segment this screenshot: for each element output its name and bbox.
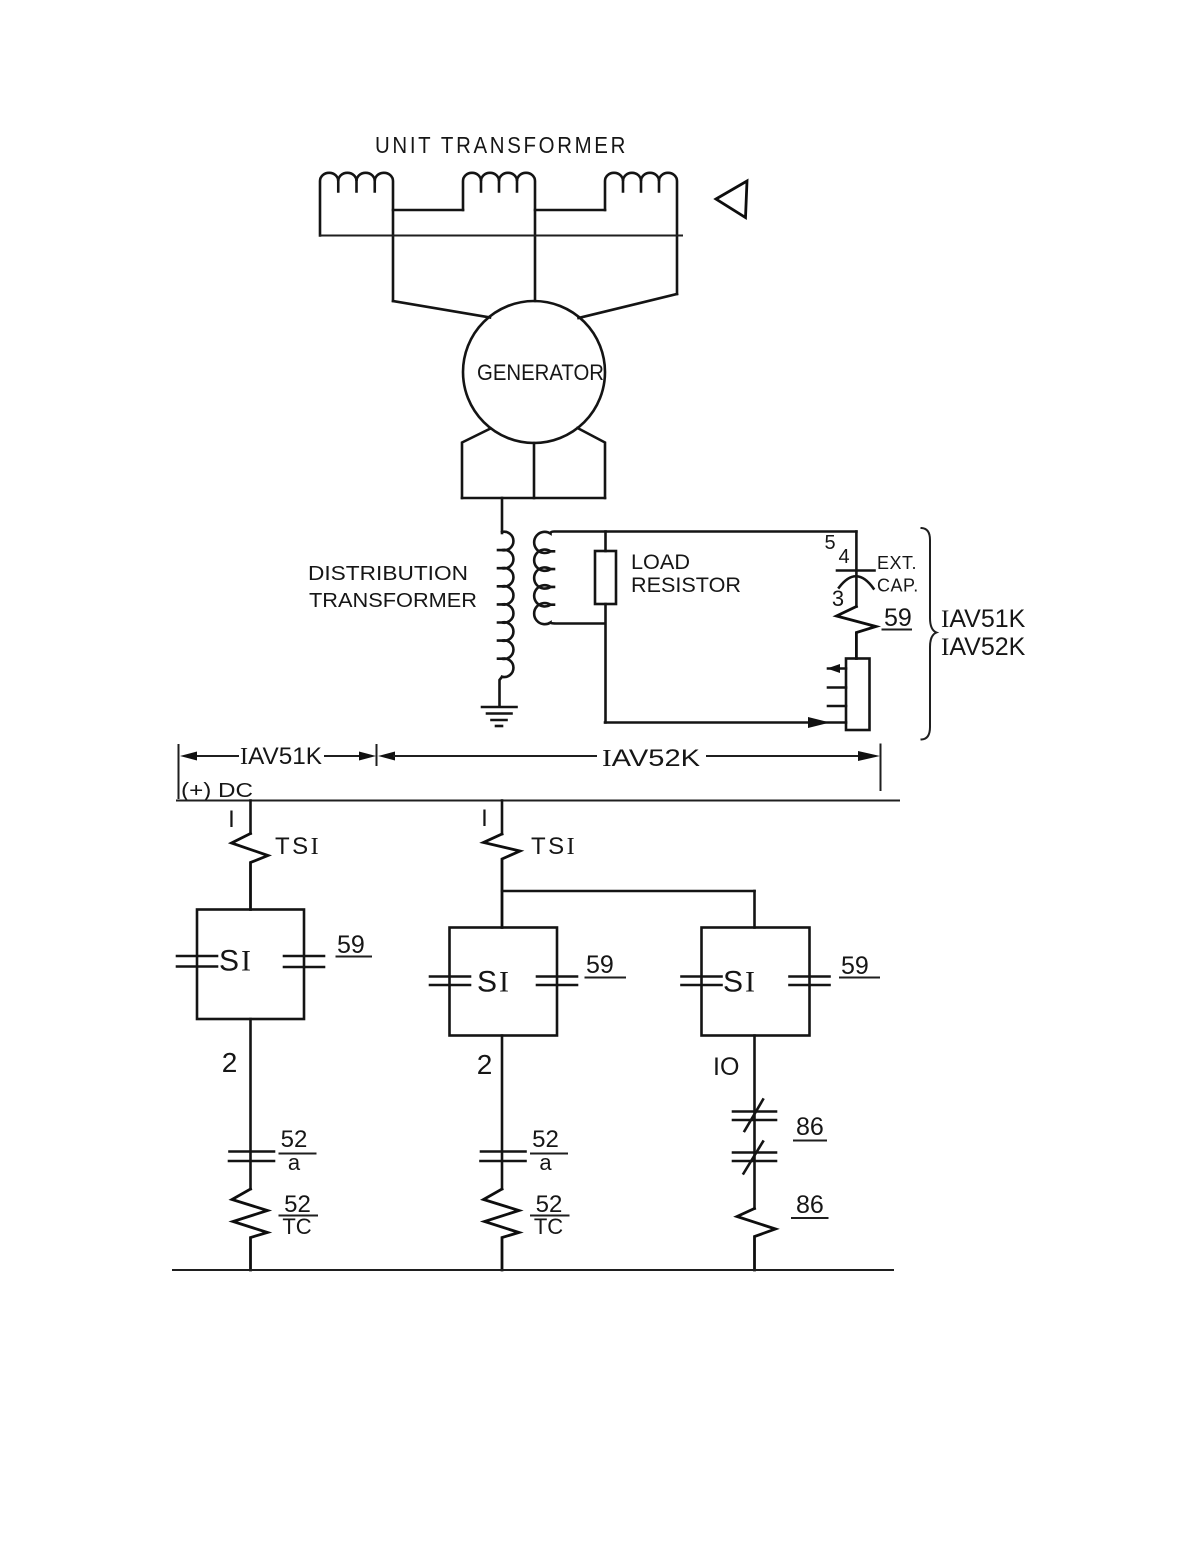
brace xyxy=(922,528,937,740)
wire feed left xyxy=(393,301,490,318)
svg-text:SI: SI xyxy=(477,966,511,999)
contact box xyxy=(846,659,870,731)
capacitor 52/a xyxy=(229,1152,274,1162)
svg-text:52: 52 xyxy=(281,1126,308,1153)
svg-text:EXT.: EXT. xyxy=(877,553,917,573)
resistor 59 (ext) xyxy=(837,607,877,659)
wire bottom of load loop with arrow xyxy=(605,721,846,724)
transformer winding L3 xyxy=(605,173,677,294)
svg-text:IO: IO xyxy=(713,1053,739,1081)
capacitor left xyxy=(177,956,217,967)
contact 86 upper xyxy=(733,1112,776,1121)
capacitor 52/a xyxy=(481,1152,526,1162)
svg-text:LOAD: LOAD xyxy=(631,551,690,574)
resistor TS1 xyxy=(484,834,521,928)
wire branch to 3 xyxy=(502,890,755,893)
svg-text:GENERATOR: GENERATOR xyxy=(477,360,604,385)
transformer winding L1 xyxy=(320,173,393,301)
wire xyxy=(753,1036,756,1209)
svg-text:TSI: TSI xyxy=(531,833,577,860)
svg-text:IAV52K: IAV52K xyxy=(602,745,700,772)
svg-text:SI: SI xyxy=(723,966,757,999)
resistor 86 xyxy=(737,1209,776,1271)
svg-text:I: I xyxy=(481,805,488,832)
load resistor R1 xyxy=(604,532,607,552)
svg-text:TRANSFORMER: TRANSFORMER xyxy=(309,590,477,612)
wire xyxy=(249,801,252,834)
svg-text:(+) DC: (+) DC xyxy=(181,780,253,802)
dimension IAV51K xyxy=(179,743,377,798)
resistor TS1 xyxy=(232,834,269,910)
svg-text:I: I xyxy=(228,806,235,833)
contact 86 lower xyxy=(733,1153,776,1162)
capacitor right xyxy=(284,956,324,967)
svg-text:TSI: TSI xyxy=(275,833,321,860)
svg-text:TC: TC xyxy=(282,1214,311,1239)
transformer winding L2 xyxy=(463,173,535,301)
relay SI box xyxy=(197,910,304,1020)
svg-text:IAV52K: IAV52K xyxy=(941,633,1026,661)
svg-text:59: 59 xyxy=(841,952,869,980)
svg-text:86: 86 xyxy=(796,1191,824,1219)
svg-text:a: a xyxy=(288,1150,301,1175)
svg-text:86: 86 xyxy=(796,1113,824,1141)
DC bus xyxy=(177,800,899,802)
svg-text:DISTRIBUTION: DISTRIBUTION xyxy=(308,563,468,585)
wire bus across windings xyxy=(321,235,683,237)
wire to ext cap xyxy=(855,532,858,571)
wire link L2-L3 xyxy=(535,209,605,212)
contact ticks xyxy=(828,669,846,707)
svg-text:a: a xyxy=(539,1150,552,1175)
generator lead left xyxy=(462,429,491,499)
svg-text:IAV51K: IAV51K xyxy=(941,605,1026,633)
polarity triangle xyxy=(716,181,747,218)
resistor 52/TC xyxy=(232,1189,268,1270)
svg-text:RESISTOR: RESISTOR xyxy=(631,574,741,597)
capacitor right xyxy=(537,977,577,986)
svg-text:5: 5 xyxy=(824,532,835,554)
capacitor left xyxy=(430,977,470,986)
capacitor EXT CAP xyxy=(837,569,875,572)
wire generator to distribution transformer xyxy=(501,498,504,533)
distribution transformer primary coil xyxy=(498,532,513,706)
svg-text:2: 2 xyxy=(222,1047,238,1078)
relay SI box 3 xyxy=(702,928,810,1036)
wire xyxy=(249,1019,252,1189)
relay SI box 2 xyxy=(450,928,558,1036)
svg-text:TC: TC xyxy=(534,1214,563,1239)
generator lead bottom bar xyxy=(462,497,605,500)
bottom bus xyxy=(173,1269,893,1271)
svg-text:CAP.: CAP. xyxy=(877,576,919,596)
svg-text:52: 52 xyxy=(532,1126,559,1153)
wire xyxy=(753,891,756,928)
wire link L1-L2 xyxy=(393,209,463,212)
svg-text:SI: SI xyxy=(219,945,253,978)
capacitor right xyxy=(790,977,830,986)
wire xyxy=(501,1036,504,1190)
distribution transformer secondary coil xyxy=(534,532,856,625)
svg-text:4: 4 xyxy=(838,546,849,568)
svg-text:UNIT TRANSFORMER: UNIT TRANSFORMER xyxy=(375,132,628,158)
dimension IAV52K xyxy=(378,745,881,791)
generator lead right xyxy=(578,428,606,498)
svg-text:2: 2 xyxy=(477,1049,493,1080)
resistor 52/TC xyxy=(484,1189,520,1270)
svg-text:59: 59 xyxy=(586,951,614,979)
svg-text:IAV51K: IAV51K xyxy=(240,743,322,770)
svg-text:3: 3 xyxy=(832,586,844,611)
capacitor left xyxy=(682,977,722,986)
generator lead center xyxy=(533,443,536,498)
svg-text:59: 59 xyxy=(884,604,912,632)
wire feed right xyxy=(579,294,678,318)
wire xyxy=(501,801,504,835)
generator circle xyxy=(463,301,605,443)
svg-text:59: 59 xyxy=(337,931,365,959)
ground xyxy=(482,707,517,726)
